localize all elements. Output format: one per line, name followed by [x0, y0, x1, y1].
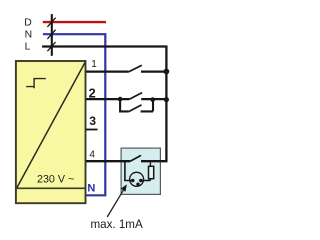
pushbutton T2 blade: [129, 105, 142, 112]
glow lamp La1 circle: [130, 172, 144, 186]
wire T2 contact riser: [141, 100, 153, 112]
switch S2 blade (in cyan box): [130, 155, 141, 161]
terminal 3 stub wire: [86, 129, 98, 131]
svg-text:max. 1mA: max. 1mA: [91, 218, 143, 231]
step (edge) symbol: [26, 79, 46, 89]
svg-text:4: 4: [89, 150, 95, 161]
glow lamp electrode bottom: [136, 183, 139, 186]
svg-text:L: L: [25, 42, 31, 53]
svg-text:N: N: [25, 29, 33, 40]
glow lamp branch vertical lead: [125, 162, 133, 181]
divider line (bottom strip of device box): [17, 187, 85, 189]
supply crossing line: [51, 14, 53, 56]
junction dot row2 left: [118, 97, 123, 102]
svg-text:230 V ~: 230 V ~: [37, 173, 74, 185]
svg-text:N: N: [87, 182, 95, 194]
junction dot riser: [150, 97, 155, 102]
svg-text:3: 3: [89, 114, 96, 128]
slash on wire D: [47, 18, 55, 27]
junction dot row2/L: [164, 97, 169, 102]
glow lamp electrode left: [131, 179, 135, 183]
annotation arrow shaft: [107, 190, 123, 217]
svg-text:D: D: [24, 18, 32, 29]
wire T1 contact: [141, 98, 167, 100]
switch S1 blade: [129, 65, 142, 72]
dimmer device box U1 (yellow): [16, 61, 86, 203]
wire terminal 2 to pushbuttons: [86, 98, 129, 100]
glow lamp electrode right: [139, 179, 143, 183]
wire N (blue): [43, 34, 105, 195]
pushbutton T1 blade: [129, 93, 142, 100]
wire S2 contact to L: [141, 160, 168, 162]
wire lamp to resistor: [141, 179, 151, 181]
wire terminal 4 to illuminated switch: [86, 160, 130, 162]
annotation arrow head: [121, 184, 127, 191]
dimmer diagonal: [17, 63, 85, 188]
slash on wire N: [47, 30, 55, 39]
illuminated switch enclosure (cyan box): [121, 148, 160, 194]
svg-text:1: 1: [91, 59, 97, 70]
slash on wire L: [47, 42, 55, 51]
wire terminal 1 to switch S1: [86, 70, 129, 72]
wire D (red): [43, 21, 106, 23]
resistor R1 top lead: [149, 162, 151, 166]
wire L (black): [42, 47, 166, 162]
resistor R1 body: [149, 166, 154, 178]
bypass loop wire (down, right): [120, 99, 129, 111]
junction dot row1/L: [164, 69, 170, 75]
wire S1 contact to L: [141, 70, 168, 72]
